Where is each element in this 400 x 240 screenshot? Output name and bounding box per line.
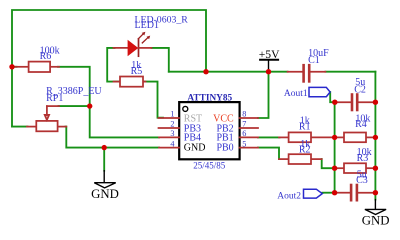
svg-text:25/45/85: 25/45/85	[193, 160, 226, 170]
junction +5V symbol / pin 8	[266, 69, 271, 74]
wire pin 8 to +5V	[258, 72, 269, 118]
resistor R1	[279, 132, 335, 142]
junction C2 right / GND rail	[373, 100, 378, 105]
wire pin 6 to R1	[258, 136, 280, 138]
capacitor C2	[336, 95, 374, 111]
junction Aout1 / C2 left / mid rail	[332, 100, 337, 105]
wire RP1 wiper to node	[59, 105, 90, 107]
pin numbers	[170, 110, 246, 149]
junction GND net / pin 4 row	[102, 145, 107, 150]
svg-text:GND: GND	[184, 143, 206, 154]
svg-text:Aout2: Aout2	[277, 191, 301, 201]
junction R4 right / GND rail	[373, 135, 378, 140]
svg-text:1: 1	[170, 110, 174, 119]
svg-text:C3: C3	[356, 175, 368, 186]
junction top rail / +5V rail	[203, 69, 208, 74]
svg-text:+5V: +5V	[259, 48, 280, 61]
svg-text:RP1: RP1	[46, 93, 63, 104]
wire R2 right to R3 row	[322, 159, 335, 168]
junction +5V / R6 left	[9, 64, 14, 69]
resistor R4	[335, 133, 376, 143]
svg-text:GND: GND	[362, 213, 390, 227]
wire Aout2 tip to node	[322, 192, 334, 194]
potentiometer RP1	[27, 106, 66, 131]
svg-text:8: 8	[242, 110, 246, 119]
wire +5V horizontal rail	[169, 71, 288, 73]
svg-text:2: 2	[170, 120, 174, 129]
chip pin labels	[184, 113, 234, 153]
junction RP1 wiper / PB4 net	[87, 103, 92, 108]
wire LED cathode to +5V rail	[152, 48, 169, 72]
svg-text:5: 5	[242, 139, 246, 148]
svg-text:Aout1: Aout1	[284, 89, 308, 99]
svg-text:PB0: PB0	[216, 143, 233, 154]
svg-text:R2: R2	[299, 145, 311, 156]
wire mid rail	[334, 102, 336, 193]
junction Aout2 / C3 left / mid rail	[332, 190, 337, 195]
wire R6 right down to pin 3	[58, 67, 159, 138]
svg-text:3: 3	[170, 129, 174, 138]
resistor R3	[335, 163, 376, 173]
resistor R5	[114, 77, 146, 87]
svg-text:ATTINY85: ATTINY85	[187, 93, 232, 103]
wire RP1 right down to pin 4 row	[66, 127, 160, 148]
svg-text:4: 4	[170, 139, 174, 148]
wire R5 right to pin 1	[144, 82, 163, 118]
wire C1 right to right rail	[325, 71, 375, 73]
wire right GND rail	[374, 72, 376, 200]
junction R1 right / R4 left / mid rail	[332, 135, 337, 140]
capacitor C3	[336, 185, 374, 200]
svg-text:R6: R6	[40, 51, 52, 62]
svg-text:7: 7	[242, 120, 246, 129]
svg-text:C2: C2	[354, 85, 366, 96]
wire LED anode down to R5	[107, 48, 120, 82]
svg-text:R1: R1	[299, 121, 311, 132]
junction R3 right / GND rail	[373, 166, 378, 171]
capacitor C1	[288, 65, 326, 81]
wire GND drop left	[103, 148, 105, 171]
connector Aout2	[304, 189, 323, 198]
wire RP1 left stub	[12, 126, 28, 128]
svg-text:R4: R4	[355, 119, 367, 130]
LED LED1	[114, 32, 152, 56]
svg-text:LED1: LED1	[135, 20, 159, 31]
wire R6 left stub	[12, 66, 17, 68]
IC U1 ATTINY85	[159, 102, 259, 159]
resistor R2	[279, 154, 322, 164]
svg-text:R3: R3	[357, 153, 369, 164]
wire pin 5 to R2	[258, 148, 279, 160]
wire Aout1 tip down	[330, 92, 334, 102]
ground symbol left	[94, 171, 115, 188]
svg-text:GND: GND	[91, 187, 119, 201]
svg-text:6: 6	[242, 129, 246, 138]
junction R2 right / R3 left / mid rail	[332, 166, 337, 171]
svg-text:C1: C1	[308, 55, 320, 66]
svg-text:R5: R5	[131, 66, 143, 77]
connector Aout1	[309, 87, 330, 96]
ground symbol right	[365, 200, 386, 215]
resistor R6	[16, 62, 60, 72]
+5V supply symbol	[260, 60, 278, 72]
wire +5V top-left rail	[12, 10, 206, 127]
junction C3 right / GND rail	[373, 190, 378, 195]
